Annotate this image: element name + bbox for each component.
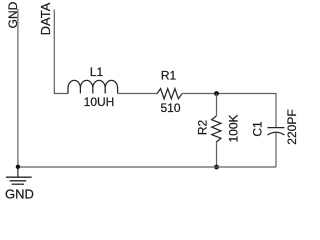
resistor R1	[157, 89, 182, 99]
svg-text:10UH: 10UH	[84, 95, 115, 109]
wire L1 to R1	[118, 93, 157, 95]
resistor R2	[212, 116, 221, 142]
ground symbol	[6, 177, 32, 184]
wire R2 top stub	[216, 94, 218, 117]
svg-text:R2: R2	[196, 120, 210, 136]
svg-text:510: 510	[160, 101, 180, 115]
svg-text:DATA: DATA	[38, 2, 53, 35]
wire DATA vertical + top horizontal to L1	[54, 10, 68, 94]
wire R2 bottom stub	[216, 142, 218, 167]
svg-text:220PF: 220PF	[285, 109, 299, 144]
svg-text:L1: L1	[90, 65, 104, 79]
svg-text:GND: GND	[5, 187, 34, 202]
wire R1 to C1 corner (through node)	[182, 94, 276, 128]
capacitor C1 top plate	[268, 127, 285, 129]
wire C1 bottom stub	[275, 133, 277, 167]
inductor L1	[68, 80, 118, 93]
junction node at R2 bottom	[214, 165, 219, 170]
wire bottom horizontal rail	[18, 166, 276, 168]
svg-text:100K: 100K	[227, 114, 241, 142]
wire GND vertical rail	[17, 9, 19, 167]
junction node at R2 top	[214, 91, 219, 96]
svg-text:R1: R1	[161, 69, 177, 83]
svg-text:C1: C1	[251, 121, 265, 137]
wire ground stub	[17, 167, 19, 177]
junction node at ground	[16, 165, 20, 169]
capacitor C1 bottom curved plate	[268, 132, 285, 135]
